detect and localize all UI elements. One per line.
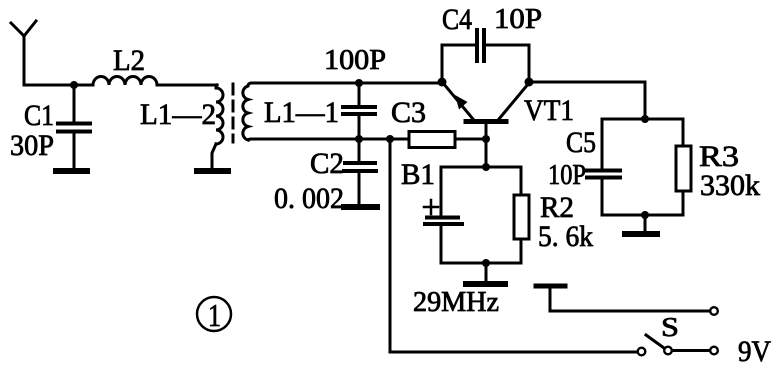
wire B1 bottom [441, 262, 521, 265]
crystal B1 (electrolytic-style element) [424, 167, 462, 263]
svg-text:0. 002: 0. 002 [274, 182, 344, 215]
node (B1 top) [482, 163, 490, 171]
node (collector / C4 right) [525, 78, 534, 87]
svg-text:L1—2: L1—2 [140, 98, 216, 131]
resistor R3 [676, 119, 691, 215]
resistor R2 [514, 167, 529, 263]
svg-text:C2: C2 [310, 147, 344, 180]
svg-text:5. 6k: 5. 6k [538, 220, 593, 253]
svg-text:330k: 330k [700, 169, 760, 202]
capacitor C4 [442, 30, 529, 82]
capacitor C2 [344, 139, 376, 205]
capacitor C1 [58, 85, 90, 168]
svg-text:L2: L2 [113, 44, 145, 77]
svg-text:10P: 10P [494, 3, 542, 35]
inductor L1-1 (transformer secondary) [243, 83, 252, 140]
ground (under C2) [344, 204, 377, 210]
node (base junction) [482, 135, 490, 143]
node (100P bottom / C2 junction) [355, 135, 363, 143]
wire down from junction to switch rail [390, 139, 637, 352]
inductor L1-2 (transformer primary) [212, 85, 223, 168]
wire bottom rail left [252, 138, 409, 141]
svg-text:100P: 100P [324, 45, 386, 76]
svg-text:B1: B1 [401, 158, 435, 191]
ground (under C1) [56, 168, 87, 174]
node (C5/R3 top) [641, 115, 649, 123]
wire C5/R3 top [602, 118, 683, 121]
wire top rail [252, 82, 442, 85]
transistor VT1 [443, 83, 529, 167]
svg-text:9V: 9V [738, 335, 771, 368]
terminal (+ 9V) [710, 307, 718, 315]
node A (antenna/C1/L2 junction) [70, 81, 78, 89]
ground terminal (battery + side) [536, 286, 709, 311]
node (emitter / top rail / C4 left) [438, 78, 447, 87]
ground (under L1-2) [197, 168, 228, 174]
svg-text:10P: 10P [548, 159, 586, 191]
wire B1 top [441, 166, 521, 169]
transformer core [232, 84, 235, 142]
node (C5/R3 bottom) [641, 211, 649, 219]
antenna [11, 21, 36, 85]
terminal (- 9V) [710, 347, 718, 355]
wire C5/R3 bottom [602, 214, 683, 217]
switch S [638, 335, 709, 355]
inductor L2 [74, 77, 217, 86]
node (100P top) [355, 79, 363, 87]
capacitor C3 (box) [409, 132, 486, 148]
svg-text:C1: C1 [24, 99, 54, 132]
svg-text:C5: C5 [566, 126, 596, 159]
capacitor 100P [343, 83, 375, 139]
wire antenna to node [24, 84, 74, 87]
svg-text:L1—1: L1—1 [264, 96, 339, 129]
svg-text:C3: C3 [391, 96, 426, 129]
ground (under C5/R3) [625, 215, 657, 234]
capacitor C5 [587, 119, 620, 215]
svg-text:29MHz: 29MHz [413, 287, 499, 318]
svg-text:30P: 30P [10, 129, 54, 162]
svg-text:1: 1 [208, 297, 221, 333]
svg-text:S: S [661, 312, 679, 342]
node (C3 left / down-wire junction) [386, 135, 394, 143]
svg-text:VT1: VT1 [524, 94, 574, 127]
figure number 1 [197, 297, 231, 333]
svg-text:C4: C4 [442, 3, 472, 36]
ground (under B1) [466, 263, 505, 284]
wire collector to R3/C5 [529, 82, 645, 119]
node (B1 bottom) [482, 259, 490, 267]
